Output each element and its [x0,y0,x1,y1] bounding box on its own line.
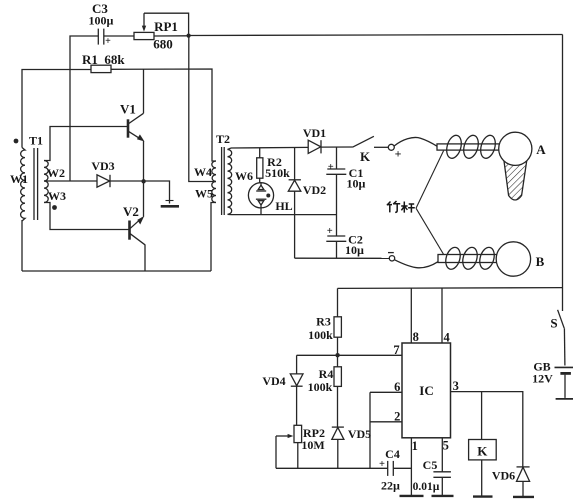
wire contact B to rod B [395,260,438,268]
svg-text:S: S [550,316,557,331]
label C1 [328,162,366,190]
label pin 1 [412,439,418,453]
label plus A [395,147,402,161]
label W5 [195,187,213,201]
ball A [499,132,532,165]
label GB 12V [532,360,553,386]
resistor R4 [334,355,341,427]
svg-text:100µ: 100µ [89,14,114,28]
svg-text:V2: V2 [123,204,139,219]
diode VD5 [332,427,344,468]
node emitter junction [141,179,145,183]
wire timing node to C4 [276,467,388,469]
potentiometer RP2 [276,425,302,468]
diode VD4 [290,355,303,425]
svg-text:8: 8 [413,330,419,344]
label VD4 [262,374,285,388]
phase dot W1 [14,139,19,144]
svg-text:680: 680 [153,37,173,52]
capacitor C2 [326,236,346,258]
svg-text:12V: 12V [532,372,553,386]
relay K [469,440,497,460]
label W3 [48,189,66,203]
svg-text:T2: T2 [216,132,230,146]
svg-text:A: A [536,142,546,157]
wire R1 left + left rail to W1 [22,70,91,148]
transistor V1 [128,113,145,141]
svg-text:R1 68k: R1 68k [82,52,125,67]
svg-text:100k: 100k [308,380,333,394]
svg-text:W2: W2 [47,166,65,180]
wire bottom rail [22,270,211,272]
svg-text:+: + [105,36,111,47]
label T2 [216,132,230,146]
wire R1 right to T2 primary top [111,69,216,161]
label V1 [120,102,136,117]
diode VD1 [308,140,321,153]
svg-text:1: 1 [412,439,418,453]
contact circle A [388,144,394,150]
svg-text:R4: R4 [319,367,334,381]
svg-text:22µ: 22µ [381,479,400,493]
wire W2 top to V1 base [44,127,128,161]
wire S to battery [563,328,566,365]
label C3 [89,1,114,47]
label IC [419,383,433,398]
svg-text:RP1: RP1 [154,19,178,34]
wire pin 4 [441,288,443,343]
phase dot W3 [52,205,57,210]
winding W6 [228,148,232,215]
label VD3 [91,159,114,173]
label pin 4 [443,331,450,345]
wire center-tap feed from RP1 node [189,36,216,182]
wire pin 8 [410,288,412,343]
wire pin 5 + capacitor C5 [433,438,451,496]
wire C3 left lead [70,36,98,181]
wire pins 2 and 6 [370,392,402,468]
wire W6 bottom rail [231,214,337,216]
wire RP1 to top rail junction [154,35,189,37]
svg-text:VD6: VD6 [492,469,515,483]
svg-text:510k: 510k [265,166,290,180]
label C2 [327,226,364,257]
label R1 68k [82,52,125,67]
svg-text:C4: C4 [385,447,400,461]
switch K blade [353,136,374,147]
label RP2 10M [301,426,325,452]
winding W3 [44,181,48,203]
float cone A (hatched) [504,160,527,201]
label K [360,149,371,164]
svg-text:2: 2 [394,409,400,423]
svg-text:VD5: VD5 [348,427,371,441]
potentiometer RP1 [134,13,189,39]
ground [161,201,179,207]
lamp HL [248,183,273,215]
svg-text:+: + [328,162,334,173]
wire V1 emitter down to junction [143,141,145,181]
bottom rail bar under C5 [432,495,454,497]
svg-text:VD4: VD4 [262,374,285,388]
wire to contact A [374,146,388,148]
svg-text:C5: C5 [423,458,438,472]
svg-text:VD3: VD3 [91,159,114,173]
svg-text:W6: W6 [235,169,253,183]
label pin 3 [453,379,459,393]
label bamboo pole (zhu gan) [387,201,415,213]
svg-text:0.01µ: 0.01µ [413,481,440,493]
label B [536,254,545,269]
label A [536,142,546,157]
wire W5 bottom lead [211,203,216,272]
bottom rail bar under pin1 [400,495,424,497]
wire lower supply rail [338,287,563,290]
diode VD6 [517,467,530,497]
capacitor C1 [326,147,346,236]
svg-text:T1: T1 [29,134,43,148]
label R3 100k [308,315,333,343]
svg-text:W3: W3 [48,189,66,203]
bottom rail bar under relay K [473,495,493,497]
label K relay [477,444,488,459]
wire VD3 to emitter junction and ground [110,181,170,204]
svg-text:+: + [327,226,333,237]
wire C3 to RP1 [104,35,134,37]
transformer T1 core [34,148,38,220]
svg-text:7: 7 [393,343,399,357]
label R4 100k [308,367,334,394]
svg-text:6: 6 [394,380,400,394]
node junction pin7 [335,353,339,357]
resistor R3 [334,288,341,355]
battery GB [555,367,573,399]
wire W6 top rail [231,146,308,149]
winding W4 [212,161,216,182]
label W1 [10,172,28,186]
svg-text:10µ: 10µ [347,177,366,191]
pointer line to rod A [416,151,444,209]
wire relay K to bottom [481,460,483,497]
label pin 2 [394,409,400,423]
wire top rail to right side [189,35,563,36]
transistor V2 [130,216,146,245]
svg-text:3: 3 [453,379,459,393]
svg-text:10M: 10M [301,438,324,452]
svg-text:4: 4 [443,331,450,345]
resistor R1 [91,65,111,72]
svg-text:100k: 100k [308,328,333,342]
label VD1 [303,126,326,140]
label pin 8 [413,330,419,344]
label C5 0.01u [413,458,440,493]
svg-text:10µ: 10µ [345,243,364,257]
label W4 [194,165,212,179]
svg-text:+: + [379,459,385,470]
winding W2 [44,161,48,182]
label W6 [235,169,253,183]
svg-text:W1: W1 [10,172,28,186]
svg-text:HL: HL [275,199,292,213]
diode VD2 [288,147,301,258]
capacitor C3 [98,29,104,45]
winding W1 [21,148,25,222]
wire contact A to rod A [394,137,437,146]
ball B [496,242,530,276]
relay K branch wire [481,392,483,440]
wire W1 bottom to bottom rail [21,220,23,271]
svg-text:5: 5 [443,439,449,453]
svg-text:V1: V1 [120,102,136,117]
wire V2 collector to bottom rail [144,245,146,272]
transformer T2 core [222,147,225,215]
label HL [275,199,292,213]
svg-text:+: + [395,147,402,161]
label VD2 [303,183,326,197]
label VD6 [492,469,515,483]
svg-text:W4: W4 [194,165,212,179]
svg-text:R3: R3 [316,315,331,329]
label RP1 [153,19,178,52]
svg-text:B: B [536,254,545,269]
pointer line to rod B [416,208,444,255]
wire W2/W3 center tap to VD3 [44,180,97,182]
wire VD1 to switch K [321,146,353,148]
label VD5 [348,427,371,441]
electrode rod B [438,255,500,263]
label R2 510k [265,155,290,180]
svg-text:K: K [360,149,371,164]
svg-text:IC: IC [419,383,433,398]
wire right rail down to switch S [562,35,564,312]
coil on rod B [443,246,496,271]
label pin 7 [393,343,399,357]
svg-text:K: K [477,444,488,459]
label minus B [388,252,394,254]
op-amp IC U1 box [402,343,451,438]
wire pin 7 [297,354,402,356]
wire junction down to V2 emitter [143,181,145,216]
capacitor C4 [388,461,412,476]
winding W5 [212,182,216,203]
wire output minus to contact B [295,257,390,259]
label pin 5 [443,439,449,453]
label pin 6 [394,380,400,394]
diode VD3 [97,175,110,187]
wire W3 bottom to V2 base [44,203,130,230]
label C4 22u [379,447,400,493]
coil on rod A [444,134,498,160]
wire V1 collector riser [143,69,145,113]
wire pin 3 [451,392,523,467]
wire pin 1 [410,438,412,496]
contact circle B [389,256,394,261]
node junction RP1/top-rail [187,34,191,38]
electrode rod A [437,144,501,150]
resistor R2 [257,148,263,183]
svg-text:VD2: VD2 [303,183,326,197]
bottom rail bar under VD6 [513,496,534,498]
svg-text:W5: W5 [195,187,213,201]
switch S blade [558,310,565,328]
label S [550,316,557,331]
label V2 [123,204,139,219]
svg-text:VD1: VD1 [303,126,326,140]
label W2 [47,166,65,180]
label T1 [29,134,43,148]
